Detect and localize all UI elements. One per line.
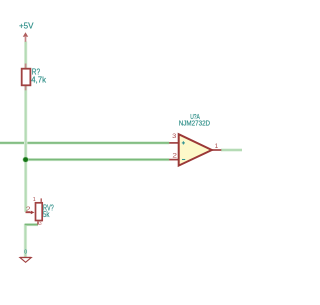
op-amp pin 2 stub xyxy=(169,159,179,161)
wire: vertical +5V to wiper xyxy=(24,42,27,212)
ground symbol xyxy=(20,258,31,263)
svg-text:1: 1 xyxy=(215,143,219,150)
wire: pot bottom horizontal xyxy=(25,223,38,226)
wire: output horizontal xyxy=(221,148,242,151)
wire: vertical to ground xyxy=(24,224,27,257)
svg-text:+5V: +5V xyxy=(19,20,34,30)
svg-text:2: 2 xyxy=(172,153,177,160)
op-amp U?A body xyxy=(179,134,212,165)
svg-text:1: 1 xyxy=(33,197,36,203)
potentiometer RV? body xyxy=(36,203,43,221)
svg-text:0: 0 xyxy=(24,249,27,255)
svg-text:4,7k: 4,7k xyxy=(31,75,47,84)
op-amp pin 1 stub xyxy=(212,149,222,151)
resistor R? body xyxy=(22,69,31,86)
op-amp pin 3 stub xyxy=(169,142,179,144)
svg-text:3: 3 xyxy=(39,221,42,227)
svg-text:NJM2732D: NJM2732D xyxy=(179,120,210,127)
power +5V arrow xyxy=(23,32,28,37)
op-amp plus input mark xyxy=(182,142,185,144)
wire: input net 1 horizontal xyxy=(0,141,169,144)
resistor R? pin stubs xyxy=(25,64,27,69)
op-amp minus input mark xyxy=(182,159,185,161)
svg-text:3: 3 xyxy=(172,133,177,140)
svg-text:5k: 5k xyxy=(43,210,50,219)
junction xyxy=(23,157,29,163)
wire: input net 2 horizontal xyxy=(26,158,170,161)
potentiometer RV? pin 3 xyxy=(37,221,39,224)
potentiometer RV? wiper arrow xyxy=(26,211,32,213)
